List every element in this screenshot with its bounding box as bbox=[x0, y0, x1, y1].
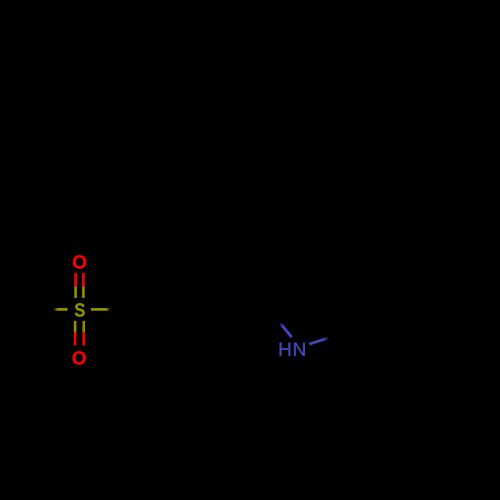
bond ring-C2 bbox=[257, 297, 261, 310]
bond S-C6H4 (sulfur half, olive) bbox=[91, 308, 111, 311]
atom N (ring NH, label HN) bbox=[280, 343, 305, 356]
bond S=O top, line 1 bbox=[74, 273, 77, 298]
bond S-CH3 (sulfur half, olive) bbox=[54, 308, 68, 311]
bond S=O bottom, line 1 bbox=[74, 321, 77, 346]
bond N-C3 (nitrogen half, blue) bbox=[309, 338, 329, 344]
bond C2-N (carbon half) bbox=[259, 297, 279, 323]
benzene ring bbox=[141, 258, 259, 360]
invisible carbon skeleton (black on black) bbox=[43, 258, 365, 360]
bond CH3-S (carbon half) bbox=[43, 308, 54, 311]
atom S (sulfonyl sulfur, label S) bbox=[75, 303, 85, 316]
atom O2 (bottom oxygen, label O) bbox=[73, 351, 86, 364]
atom O1 (top oxygen, label O) bbox=[73, 255, 86, 268]
bond N-C3 (carbon half) bbox=[329, 324, 365, 338]
bond S=O bottom, line 2 bbox=[82, 321, 85, 346]
bond S=O top, line 2 bbox=[82, 273, 85, 298]
bond N-C2 (nitrogen half, blue) bbox=[280, 322, 292, 337]
